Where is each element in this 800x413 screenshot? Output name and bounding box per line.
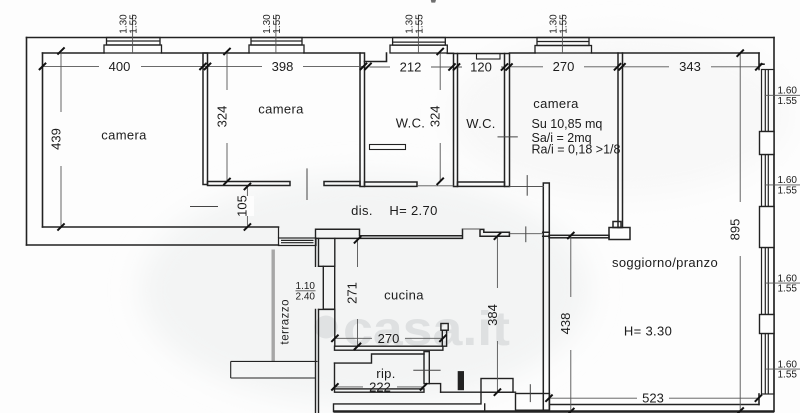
jamb cap soggiorno passage (543, 232, 550, 236)
svg-text:1.55: 1.55 (778, 185, 798, 196)
tick door wc2 (498, 136, 518, 138)
window label group T1 (119, 14, 140, 54)
svg-text:W.C.: W.C. (396, 116, 426, 131)
svg-text:270: 270 (378, 331, 400, 346)
tick door camera1 (190, 206, 218, 208)
tick entrance door (529, 384, 531, 402)
window label group R3 (765, 273, 800, 294)
wall cucina top (316, 229, 463, 238)
window R1 right wall (762, 70, 775, 132)
wall wc2 bottom (458, 182, 505, 186)
svg-text:Ra/i = 0,18 >1/8: Ra/i = 0,18 >1/8 (532, 142, 621, 156)
svg-text:384: 384 (485, 304, 500, 326)
window label group T2 (262, 14, 283, 54)
svg-text:W.C.: W.C. (466, 116, 496, 131)
svg-text:271: 271 (345, 282, 360, 304)
window T1 camera1 (104, 38, 162, 54)
wall soggiorno bottom inner (550, 404, 760, 406)
label door 1.10 2.40 (296, 281, 316, 303)
door leaf terrazzo/cucina (323, 266, 334, 309)
stub cucina east (442, 330, 446, 346)
dimension 523 soggiorno (549, 397, 758, 399)
svg-text:439: 439 (48, 128, 63, 150)
svg-text:2.40: 2.40 (296, 292, 316, 303)
tick door camera2 (306, 168, 308, 200)
svg-text:895: 895 (727, 219, 742, 241)
wall wc1 bottom (365, 182, 418, 186)
wall rip bottom (335, 389, 425, 392)
svg-text:H= 3.30: H= 3.30 (624, 324, 672, 339)
terrazzo parapet grey (272, 250, 275, 362)
svg-text:1.55: 1.55 (129, 14, 140, 34)
wall wc1/wc2 (454, 54, 458, 187)
wall cucina west double (316, 229, 319, 413)
terrazzo lower line (231, 361, 316, 378)
svg-text:400: 400 (109, 59, 131, 74)
wall rip right jog (429, 384, 440, 393)
pillar notch (613, 222, 621, 228)
svg-text:1.55: 1.55 (778, 284, 798, 295)
threshold wc1 door (417, 185, 454, 187)
door ticks (190, 137, 530, 402)
dimension vertical 438 (570, 236, 572, 412)
wall bottom band upper edge (334, 392, 485, 411)
wall right inner bottom piece (758, 394, 760, 405)
svg-text:camera: camera (101, 128, 147, 143)
wall WC1 ceiling step (365, 53, 454, 62)
window T4 camera3 (535, 38, 592, 54)
svg-text:398: 398 (272, 59, 294, 74)
wall top outer face (27, 37, 775, 39)
door jambs terrazzo/cucina (319, 266, 335, 309)
dimension vertical 384 (496, 236, 498, 392)
stub cucina east cap (441, 324, 448, 331)
pier right wall 1 (760, 132, 775, 155)
dimension vertical 324 camera2 (226, 52, 228, 182)
wall top inner face segments (43, 52, 760, 55)
dimension vertical 895 (739, 53, 741, 411)
niche wc2 (477, 54, 501, 60)
wall rip top (335, 354, 425, 363)
dimension 222 rip (335, 386, 424, 388)
wall right inner face top step (759, 53, 764, 70)
svg-text:camera: camera (258, 102, 304, 117)
wall left outer face (26, 38, 28, 246)
wall cucina bottom (335, 346, 443, 350)
dimension 270 cucina (335, 337, 443, 339)
svg-text:212: 212 (400, 59, 422, 74)
wall corridor top segment a (208, 182, 291, 186)
svg-text:Su 10,85 mq: Su 10,85 mq (532, 117, 603, 131)
svg-text:324: 324 (214, 106, 229, 128)
pier right wall 2 (760, 207, 775, 248)
svg-text:105: 105 (235, 195, 250, 217)
dimension lines horizontal top (43, 65, 759, 68)
wall camera1/camera2 (203, 53, 208, 185)
svg-text:1.55: 1.55 (778, 96, 798, 107)
wall entrance bulge (481, 379, 513, 393)
wall soggiorno west (543, 183, 549, 410)
wall bottom heavy outer (334, 410, 775, 412)
threshold cucina door (463, 228, 481, 230)
wall cucina west pier edge (334, 238, 336, 346)
svg-text:523: 523 (642, 391, 664, 406)
wall camera2/wc1 (360, 53, 365, 187)
window label group R1 (765, 86, 800, 107)
svg-text:cucina: cucina (384, 288, 424, 303)
box entrance recess (516, 394, 550, 411)
wall corridor bottom inner edge (43, 226, 279, 228)
svg-text:H= 2.70: H= 2.70 (389, 203, 437, 218)
window R4 right wall (762, 334, 775, 395)
svg-text:270: 270 (553, 59, 575, 74)
threshold camera3 doorway (510, 186, 544, 188)
dimension vertical 105 (246, 187, 248, 226)
wall camera3/soggiorno (618, 53, 623, 228)
window T3 wc (390, 38, 447, 54)
tick door camera3 (526, 175, 528, 196)
dimension vertical 439 (60, 51, 62, 227)
tick passage soggiorno (525, 226, 527, 242)
dimension ticks top (39, 63, 763, 71)
pillar soggiorno (609, 228, 630, 240)
svg-text:rip.: rip. (376, 366, 395, 381)
window R2 right wall (762, 155, 775, 207)
window R3 right wall (762, 248, 775, 315)
dimension vertical 271 (357, 240, 359, 347)
svg-text:120: 120 (470, 59, 492, 74)
wall partial soggiorno (549, 235, 609, 238)
wall left inner face (42, 53, 44, 227)
dimension vertical 324 wc1 (439, 52, 441, 182)
terrazzo bottom line (231, 360, 318, 362)
wall corridor bottom right segment (480, 229, 509, 236)
window label group R2 (765, 175, 800, 196)
wall entrance bottom (441, 391, 516, 393)
wall corridor top segment b (324, 182, 360, 186)
window label group R4 (765, 359, 800, 380)
svg-text:1.55: 1.55 (778, 370, 798, 381)
tick door rip (413, 369, 440, 371)
door terrazzo north box (279, 227, 317, 246)
window T2 camera2 (249, 38, 304, 54)
svg-text:324: 324 (427, 105, 442, 127)
svg-text:343: 343 (679, 59, 701, 74)
window label group T4 (549, 14, 570, 54)
wall rip left (334, 363, 336, 389)
wall wc2/camera3 (505, 54, 510, 187)
shelf wc1 (370, 145, 406, 150)
svg-text:222: 222 (369, 379, 391, 394)
watermark logo blob (315, 316, 338, 339)
wall right outer face (773, 38, 775, 412)
svg-text:terrazzo: terrazzo (280, 299, 292, 345)
svg-text:dis.: dis. (351, 203, 373, 218)
wall rip right (424, 352, 429, 384)
wall bottom-left outer face (27, 244, 279, 246)
pier right wall 3 (760, 315, 775, 334)
svg-text:438: 438 (558, 313, 573, 335)
pillar black entrance (458, 372, 463, 390)
window label group T3 (405, 14, 426, 54)
svg-text:1.55: 1.55 (559, 14, 570, 34)
svg-text:1.55: 1.55 (272, 14, 283, 34)
threshold soggiorno passage (509, 233, 542, 235)
svg-text:camera: camera (533, 96, 579, 111)
cropped glyph at top edge (431, 0, 436, 3)
svg-text:soggiorno/pranzo: soggiorno/pranzo (612, 255, 718, 270)
svg-text:1.55: 1.55 (415, 14, 426, 34)
